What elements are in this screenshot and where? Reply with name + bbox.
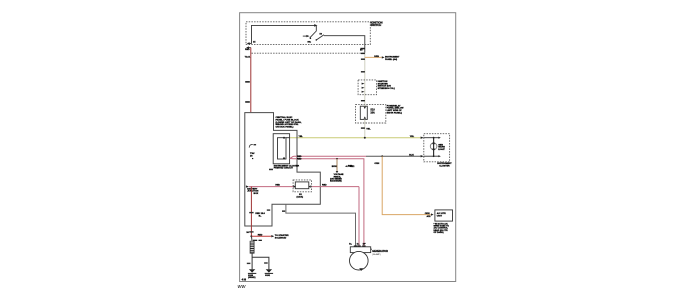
- svg-text:BACKSIDE): BACKSIDE): [330, 180, 342, 183]
- svg-text:(GRND): (GRND): [248, 277, 256, 279]
- svg-text:10A: 10A: [370, 111, 375, 114]
- svg-text:ww: ww: [238, 284, 247, 290]
- svg-text:PRINTED CIRCUIT: PRINTED CIRCUIT: [274, 168, 294, 170]
- svg-text:YEL: YEL: [299, 136, 304, 138]
- svg-text:RED: RED: [348, 165, 353, 167]
- svg-text:ORN: ORN: [425, 213, 430, 215]
- svg-text:(110A): (110A): [297, 195, 304, 198]
- svg-text:YEL: YEL: [410, 136, 415, 138]
- svg-text:RED: RED: [297, 156, 302, 158]
- svg-text:UNIT: UNIT: [437, 215, 443, 217]
- svg-text:ORN: ORN: [374, 56, 379, 58]
- svg-text:ORN: ORN: [374, 163, 379, 165]
- svg-text:T1c/1: T1c/1: [245, 56, 251, 58]
- svg-text:OF DASH): OF DASH): [434, 231, 444, 234]
- svg-text:RED: RED: [275, 185, 280, 187]
- svg-text:RED: RED: [258, 235, 263, 237]
- svg-text:(90 AMP): (90 AMP): [372, 253, 381, 256]
- svg-text:SOLENOID: SOLENOID: [275, 237, 287, 239]
- svg-text:INSTR PANEL): INSTR PANEL): [387, 111, 402, 114]
- svg-text:GENERATOR: GENERATOR: [372, 250, 388, 253]
- svg-text:RED: RED: [245, 49, 250, 51]
- svg-text:YEL: YEL: [366, 128, 371, 130]
- svg-text:BRN: BRN: [332, 166, 337, 168]
- svg-text:4 99: 4 99: [242, 278, 247, 281]
- svg-text:BOX: BOX: [254, 193, 259, 195]
- svg-text:SWITCH: SWITCH: [371, 23, 382, 27]
- svg-text:RED: RED: [322, 184, 327, 186]
- svg-text:BLK: BLK: [409, 155, 414, 157]
- svg-text:CLUSTER: CLUSTER: [439, 166, 450, 168]
- svg-text:PANEL (A4): PANEL (A4): [385, 58, 397, 61]
- svg-text:STEERING COL): STEERING COL): [378, 88, 395, 90]
- svg-text:G101: G101: [265, 275, 271, 277]
- svg-text:RED: RED: [297, 159, 302, 161]
- svg-text:ON KICK PANEL): ON KICK PANEL): [276, 125, 294, 128]
- svg-text:LIGHT: LIGHT: [438, 149, 445, 151]
